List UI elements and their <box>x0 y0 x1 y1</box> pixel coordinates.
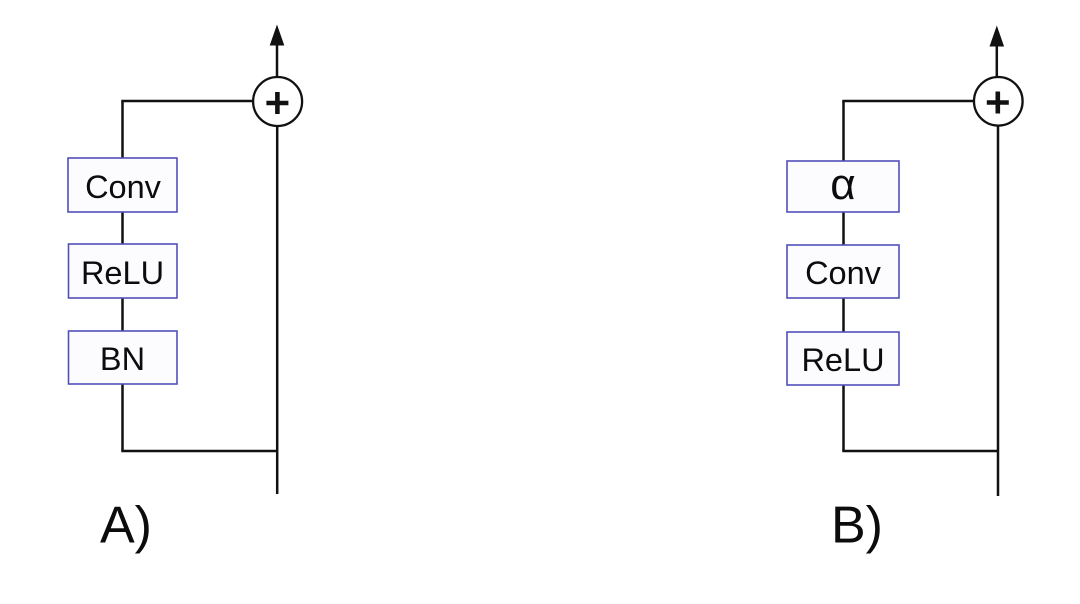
svg-text:α: α <box>830 160 855 209</box>
svg-text:Conv: Conv <box>805 255 882 291</box>
svg-text:B): B) <box>831 497 883 555</box>
svg-text:BN: BN <box>100 341 145 377</box>
svg-text:A): A) <box>100 497 152 555</box>
svg-text:Conv: Conv <box>85 169 162 205</box>
svg-text:ReLU: ReLU <box>801 342 884 378</box>
svg-text:ReLU: ReLU <box>81 255 164 291</box>
